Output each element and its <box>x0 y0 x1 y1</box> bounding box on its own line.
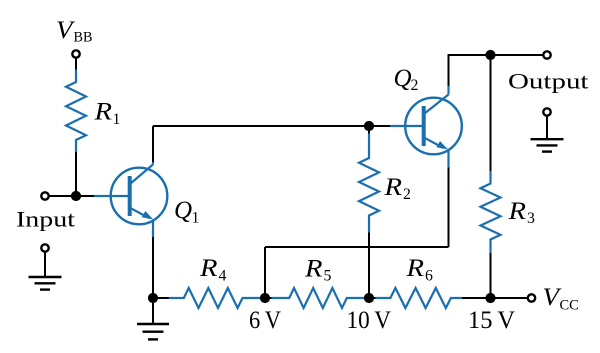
wire emitter rail to 6V riser <box>265 246 449 248</box>
node emitter ground junction <box>148 293 158 303</box>
svg-text:6: 6 <box>425 268 433 285</box>
wire rail to Q2 base <box>369 125 390 127</box>
node 15V <box>485 293 495 303</box>
svg-text:2: 2 <box>403 186 411 203</box>
node 10V <box>364 293 374 303</box>
svg-text:Input: Input <box>16 207 76 232</box>
svg-text:1: 1 <box>192 210 200 227</box>
svg-text:3: 3 <box>527 210 535 227</box>
svg-text:4: 4 <box>219 268 227 285</box>
svg-text:15 V: 15 V <box>468 305 516 334</box>
ground below Output <box>531 108 564 151</box>
svg-text:5: 5 <box>324 268 332 285</box>
wire R1 to input node <box>75 152 77 196</box>
terminal VCC <box>528 294 535 301</box>
resistor R1 <box>66 70 86 153</box>
wire Q1 emitter down <box>152 237 154 298</box>
wire Q2 emitter down <box>448 168 450 248</box>
resistor R3 <box>481 171 501 254</box>
wire Input terminal to node <box>49 195 94 197</box>
svg-text:R: R <box>383 174 402 201</box>
node input-base junction <box>71 191 81 201</box>
node 6V <box>260 293 270 303</box>
ground below Q1 emitter <box>137 298 169 339</box>
node output junction <box>485 50 495 60</box>
wire R3 to 15V node <box>490 253 492 298</box>
wire 6V riser <box>264 247 266 298</box>
svg-text:R: R <box>93 99 112 126</box>
transistor Q1 <box>94 162 167 239</box>
resistor R4 <box>153 288 265 308</box>
wire output rail to terminal <box>491 54 544 56</box>
svg-text:R: R <box>507 198 526 225</box>
terminal VBB <box>72 50 79 57</box>
svg-text:R: R <box>304 255 323 282</box>
node top rail R2 junction <box>364 121 374 131</box>
wire VBB terminal to R1 <box>75 58 77 70</box>
svg-text:CC: CC <box>560 297 579 313</box>
svg-text:Output: Output <box>508 69 589 94</box>
terminal Output <box>543 51 550 58</box>
wire Q1 collector to top rail <box>152 126 154 162</box>
ground below Input <box>29 244 62 289</box>
svg-text:1: 1 <box>113 111 121 128</box>
svg-text:R: R <box>405 255 424 282</box>
transistor Q2 <box>390 86 462 169</box>
wire top rail <box>153 125 369 127</box>
svg-text:Q: Q <box>394 65 412 92</box>
svg-text:R: R <box>199 255 218 282</box>
svg-text:BB: BB <box>74 30 93 46</box>
resistor R5 <box>265 288 369 308</box>
svg-text:10 V: 10 V <box>347 305 392 334</box>
resistor R6 <box>369 288 491 308</box>
terminal Input <box>41 192 48 199</box>
svg-text:2: 2 <box>411 77 419 94</box>
wire 15V node to VCC terminal <box>491 297 528 299</box>
wire Q2 collector to output rail <box>449 55 491 86</box>
svg-text:6 V: 6 V <box>249 305 282 334</box>
wire output node down to R3 <box>490 55 492 172</box>
resistor R2 <box>359 126 379 298</box>
svg-text:Q: Q <box>174 197 192 224</box>
